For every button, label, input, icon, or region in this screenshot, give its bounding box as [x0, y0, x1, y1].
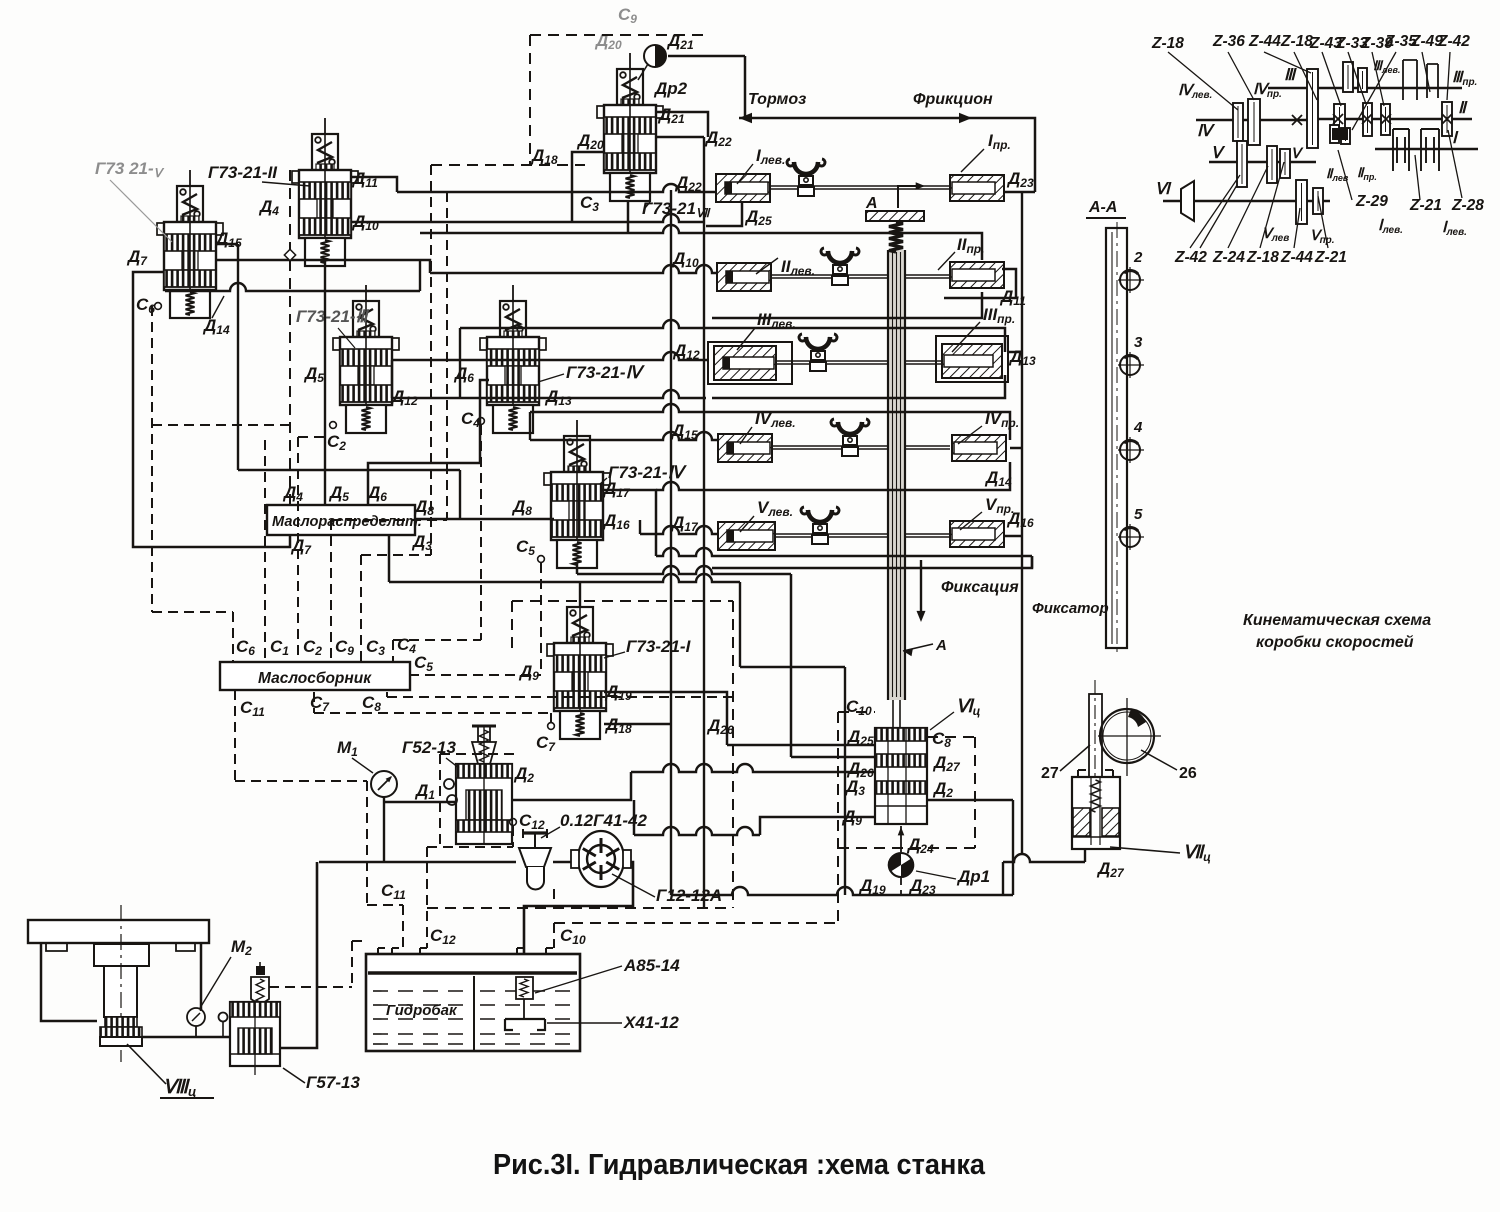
- svg-text:Маслосборник: Маслосборник: [258, 670, 372, 687]
- tank Gidrobak: [366, 954, 580, 1051]
- valve G73-21-IV upper spring box: [493, 405, 533, 433]
- gear small a: [1330, 125, 1339, 143]
- valve G73-21-II spring box: [305, 238, 345, 266]
- fork V: [808, 510, 832, 522]
- wire y534 to rail V: [640, 526, 718, 534]
- VII rod: [1090, 778, 1092, 845]
- kinematic shaft IV: [1196, 119, 1318, 122]
- gear Z-44 on III: [1307, 69, 1318, 148]
- wire y470: [238, 469, 460, 472]
- svg-text:Др1: Др1: [956, 867, 990, 886]
- wire y835 long D9: [633, 800, 636, 835]
- bolt 2 on A-A bar: [1120, 270, 1140, 290]
- valve G73-21-III spring box: [346, 405, 386, 433]
- connection C4: [478, 418, 485, 425]
- cylinder I pr: [950, 175, 1004, 201]
- svg-text:А85-14: А85-14: [623, 956, 680, 975]
- valve G73-21-IV mid neck: [568, 466, 586, 472]
- dashed C12 drop: [512, 826, 514, 847]
- valve G73-21-V neck: [181, 216, 199, 222]
- valve G73-21-V body: [164, 222, 216, 290]
- table axis: [120, 905, 122, 1062]
- wire D5 into box: [324, 260, 326, 505]
- check valve A85-14: [516, 977, 533, 999]
- VII spring: [1091, 780, 1101, 812]
- kinematic mid leaders: [1338, 150, 1352, 200]
- svg-text:Z-42: Z-42: [1174, 249, 1207, 266]
- pump outlet pipe: [524, 862, 633, 977]
- rail II rod: [770, 274, 950, 276]
- wire y273 to rail II: [430, 265, 717, 273]
- table tabs: [46, 943, 67, 951]
- cylinder III pr: [942, 344, 1002, 378]
- bolt 3 on A-A bar: [1120, 355, 1140, 375]
- valve G73-21-II neck: [316, 164, 334, 170]
- wire y582 long: [388, 535, 391, 582]
- svg-text:Фиксация: Фиксация: [941, 579, 1019, 596]
- valve G73-21-V spring box: [170, 290, 210, 318]
- gear Z-21 on VI: [1313, 188, 1323, 214]
- table left wall: [41, 943, 97, 1021]
- dashed C4: [480, 425, 482, 640]
- wire y440 to rail IV: [530, 432, 718, 440]
- dashed bottom y923: [554, 922, 838, 924]
- dashed C6 run: [152, 611, 233, 613]
- VII top collars: [1078, 770, 1086, 777]
- svg-text:А-А: А-А: [1088, 199, 1117, 216]
- wire V pr to bus: [1004, 535, 1022, 538]
- gauge M1: [371, 771, 397, 797]
- piston collar 1: [105, 1017, 137, 1027]
- wire VI cyl D27 right: [927, 799, 1013, 802]
- dashed y425 top-left: [152, 424, 290, 426]
- gear on III left: [1343, 62, 1353, 92]
- valve G73-21-IV mid body: [551, 472, 603, 540]
- gear bracket III right b: [1427, 64, 1438, 98]
- dashed C6 drop: [232, 612, 234, 662]
- dashed C10 tank: [553, 923, 555, 948]
- wire valve V right leg: [237, 244, 239, 470]
- valve G73-21-II pilot: [312, 134, 338, 170]
- shaft lower rod: [892, 700, 894, 728]
- valve G73-21-II body: [299, 170, 351, 238]
- dashed box around VI cyl: [837, 712, 839, 925]
- bus wire vertical x704: [703, 137, 705, 908]
- wire y360 D12 to rail III: [392, 352, 708, 360]
- valve G73-21-VII neck: [621, 99, 639, 105]
- svg-text:Г57-13: Г57-13: [306, 1073, 360, 1092]
- pipe table to G57: [142, 1036, 233, 1039]
- wire y745 to VI cylinder: [727, 744, 875, 747]
- frame around rail V: [712, 556, 1032, 568]
- wire D19 from valve I: [604, 692, 727, 745]
- wire y260 valve V to III: [216, 260, 430, 273]
- piston collar 2: [100, 1027, 142, 1037]
- gear Z-43 on II: [1334, 104, 1345, 139]
- wire filter to pump: [553, 861, 572, 864]
- gear on III mid: [1358, 68, 1367, 92]
- svg-text:Фиксатор: Фиксатор: [1032, 600, 1109, 617]
- wire IV pr to bus: [1010, 447, 1022, 450]
- wire y222 D10: [351, 214, 704, 222]
- svg-text:коробки скоростей: коробки скоростей: [1256, 634, 1414, 651]
- box Maslorapredelit: [267, 505, 415, 535]
- kinematic shaft II: [1312, 118, 1472, 121]
- wire D7 from valve V: [133, 272, 290, 547]
- central shift shaft: [888, 250, 905, 700]
- frame around rail II: [706, 233, 982, 260]
- wire y667 to x845: [740, 666, 845, 669]
- rail III rod: [770, 360, 950, 362]
- wire x1003 lower: [1002, 862, 1004, 895]
- gear bracket I right: [1421, 129, 1439, 171]
- kinematic shaft VI: [1163, 200, 1330, 203]
- arrow Tormoz on line: [739, 113, 752, 123]
- svg-text:Др2: Др2: [653, 79, 688, 98]
- table column upper: [94, 944, 149, 966]
- valve G73-21-IV upper pilot: [500, 301, 526, 337]
- svg-text:Тормоз: Тормоз: [748, 91, 806, 108]
- table right wall: [200, 943, 203, 1011]
- wire y757 VI cyl D26: [791, 756, 875, 759]
- valve G73-21-III body: [340, 337, 392, 405]
- svg-text:Кинематическая схема: Кинематическая схема: [1243, 612, 1431, 629]
- dashed C8 out: [386, 692, 388, 697]
- arrow Fiksacija: [920, 560, 922, 618]
- svg-text:Z-18: Z-18: [1280, 33, 1313, 50]
- dashed box around valve I: [512, 600, 733, 602]
- svg-text:26: 26: [1179, 765, 1197, 782]
- dashed C1: [264, 440, 266, 662]
- wire y772 long D3: [631, 764, 875, 772]
- wire VII right upper: [656, 112, 708, 137]
- cylinder II lev: [717, 263, 771, 291]
- wire y862 bottom: [1003, 854, 1085, 862]
- wire Dr1 up arrow: [900, 826, 902, 852]
- fixator pin 27: [1089, 694, 1102, 778]
- wire y398 frame: [392, 390, 706, 398]
- valve G73-21-IV mid spring box: [557, 540, 597, 568]
- valve G73-21-VII spring box: [610, 173, 650, 201]
- connection C12: [510, 819, 517, 826]
- svg-text:Z-18: Z-18: [1246, 249, 1279, 266]
- connection C5: [538, 556, 545, 563]
- rail V rod: [770, 533, 950, 535]
- cylinder III lev outer: [708, 342, 792, 384]
- rail IV rod: [770, 445, 950, 447]
- frame around rail IV: [706, 412, 1010, 440]
- cylinder VI body: [875, 728, 927, 824]
- svg-text:Фрикцион: Фрикцион: [913, 91, 993, 108]
- filter bowl: [527, 867, 544, 890]
- wire III pr to bus: [1008, 351, 1022, 354]
- svg-text:Z-21: Z-21: [1314, 249, 1347, 266]
- dashed relief to riser: [269, 986, 352, 988]
- gauge M2: [187, 1008, 205, 1026]
- valve G52-13 body: [456, 764, 512, 844]
- filter 0.12G41-42 tap: [534, 845, 536, 852]
- svg-text:Z-29: Z-29: [1355, 193, 1388, 210]
- fork II: [828, 251, 852, 263]
- wire y556: [600, 490, 656, 556]
- cylinder I lev: [716, 174, 770, 202]
- bolt 4 on A-A bar: [1120, 440, 1140, 460]
- throttle Dr1: [889, 853, 913, 877]
- valve G73-21-I body: [554, 643, 606, 711]
- wire y574: [576, 563, 579, 574]
- wire D8 box to valve: [415, 518, 554, 521]
- pulley on VI: [1181, 181, 1194, 221]
- dashed C9 riser: [446, 192, 448, 520]
- kinematic leaders bottom: [1190, 175, 1240, 248]
- wire y233 frame: [420, 225, 706, 233]
- wire y490 frame: [656, 482, 712, 490]
- svg-text:Z-44: Z-44: [1280, 249, 1313, 266]
- wire y895 bottom: [671, 887, 1013, 895]
- svg-text:Маслораспределит.: Маслораспределит.: [272, 514, 422, 530]
- wire Dr1 down dashed: [900, 877, 902, 895]
- pump G12-12A: [578, 831, 624, 887]
- gear Z-18 on V: [1280, 149, 1290, 178]
- clutch crosses: [1333, 114, 1343, 124]
- svg-text:Г73-21-Ⅳ: Г73-21-Ⅳ: [566, 363, 646, 382]
- wire y291 left: [165, 283, 420, 291]
- gear Z-44 on VI: [1296, 180, 1307, 224]
- svg-text:Г73-21-II: Г73-21-II: [208, 163, 278, 182]
- svg-text:А: А: [865, 195, 878, 212]
- gear Z-42 on II: [1442, 102, 1452, 136]
- filter funnel: [519, 848, 551, 867]
- valve G73-21-VII body: [604, 105, 656, 173]
- G57 small circles: [219, 1013, 228, 1022]
- outer frame top wire: [744, 56, 747, 118]
- valve G73-21-IV upper neck: [504, 331, 522, 337]
- wire gauge to frame: [668, 55, 745, 58]
- valve G73-21-VII pilot: [617, 69, 643, 105]
- wire VII right lower: [656, 136, 704, 139]
- gear small b: [1341, 128, 1350, 144]
- valve G73-21-IV upper body: [487, 337, 539, 405]
- dashed C3 riser: [430, 165, 432, 555]
- right bus wire: [1021, 192, 1023, 855]
- piston cap: [100, 1037, 142, 1046]
- valve G73-21-IV mid pilot: [564, 436, 590, 472]
- gear Z-18 on IV: [1233, 103, 1243, 141]
- cylinder V pr: [950, 521, 1004, 547]
- strainer X41-12: [523, 999, 525, 1019]
- svg-text:2: 2: [1133, 249, 1143, 266]
- shaft platform: [866, 211, 924, 221]
- kinematic leaders top: [1168, 52, 1238, 110]
- connection C2: [330, 422, 337, 429]
- pipe VII cyl: [1084, 849, 1086, 862]
- valve G73-21-I spring box: [560, 711, 600, 739]
- svg-text:Гидробак: Гидробак: [386, 1002, 458, 1019]
- wire D4 dashed: [289, 170, 291, 505]
- dashed C7 out: [313, 692, 315, 713]
- valve G73-21-I pilot: [567, 607, 593, 643]
- valve G73-21-I neck: [571, 637, 589, 643]
- platform bent arrow: [898, 186, 922, 208]
- svg-text:Рис.3I. Гидравлическая :хема: Рис.3I. Гидравлическая :хема станка: [493, 1149, 986, 1181]
- dashed box G52: [440, 753, 514, 755]
- wire M1 to valve G52: [384, 801, 456, 804]
- dashed C11 drop: [234, 690, 236, 781]
- tank divider: [473, 976, 475, 1050]
- valve G73-21-III pilot: [353, 301, 379, 337]
- bolt 5 on A-A bar: [1120, 527, 1140, 547]
- cylinder II pr: [950, 262, 1004, 288]
- gear Z-33 on II: [1363, 103, 1372, 136]
- svg-text:Z-21: Z-21: [1409, 197, 1442, 214]
- suction line main: [319, 861, 516, 864]
- svg-text:Г73-21-Ⅲ: Г73-21-Ⅲ: [296, 307, 370, 326]
- wire I pr to bus: [1005, 191, 1035, 194]
- svg-text:Z-36: Z-36: [1212, 33, 1245, 50]
- kinematic shaft III: [1268, 87, 1462, 90]
- cylinder IV lev: [718, 434, 772, 462]
- fork I: [794, 162, 818, 174]
- table column: [104, 966, 137, 1017]
- tank top collars: [378, 948, 385, 954]
- wire valve I top feed: [579, 582, 581, 606]
- wire x791 down to VI cyl: [790, 574, 793, 757]
- disc 26: [1100, 709, 1154, 763]
- kinematic shaft I: [1375, 148, 1478, 151]
- svg-text:Z-42: Z-42: [1437, 33, 1470, 50]
- cylinder V lev: [718, 522, 775, 550]
- wire M1 stem: [383, 797, 385, 862]
- svg-text:Г73-21-I: Г73-21-I: [626, 637, 692, 656]
- fork III: [806, 337, 830, 349]
- dashed C2: [297, 437, 299, 662]
- wire D2 from G52-13: [508, 772, 631, 800]
- cylinder III lev: [714, 346, 776, 380]
- relief valve over G57: [251, 977, 269, 1005]
- svg-text:Z-24: Z-24: [1212, 249, 1245, 266]
- section bar A-A: [1106, 228, 1127, 648]
- dashed C9: [330, 520, 332, 662]
- gear bracket I left: [1393, 129, 1409, 171]
- pipe G57 out: [280, 862, 317, 1048]
- wire y412 frame: [530, 404, 706, 412]
- svg-text:Z-18: Z-18: [1151, 35, 1184, 52]
- fork IV: [838, 422, 862, 434]
- dashed C6 riser: [151, 306, 153, 612]
- gear Z-36 on IV: [1248, 99, 1260, 145]
- valve G73-21-III neck: [357, 331, 375, 337]
- tank oil level: [368, 971, 577, 974]
- wire VII bottom stub: [627, 201, 630, 233]
- connection C7: [548, 723, 555, 730]
- svg-text:3: 3: [1134, 334, 1143, 351]
- svg-text:5: 5: [1134, 506, 1143, 523]
- gauge Dr2 circle: [644, 45, 666, 67]
- cylinder III pr outer: [936, 336, 1008, 382]
- wire y192 valve II to rail I: [351, 177, 397, 192]
- gear bracket III right a: [1403, 60, 1417, 100]
- svg-text:Ⅵ: Ⅵ: [1155, 181, 1172, 198]
- dashed pilot box VII: [530, 34, 710, 36]
- connection C6: [155, 303, 162, 310]
- tank liquid dashes: [373, 990, 468, 992]
- wire y328 frame: [460, 320, 706, 328]
- VII hatch left: [1073, 808, 1090, 836]
- svg-text:0.12Г41-42: 0.12Г41-42: [560, 811, 648, 830]
- VII hatch right: [1102, 808, 1119, 836]
- svg-text:Z-28: Z-28: [1451, 197, 1484, 214]
- svg-text:Z-44: Z-44: [1248, 33, 1281, 50]
- pointer A lower: [903, 644, 933, 651]
- gear Z-42 slider IV-V: [1237, 141, 1247, 187]
- arrow Friktsion on line: [959, 113, 972, 123]
- dashed C5 out: [409, 674, 541, 676]
- gear Z-24 on V: [1267, 146, 1277, 183]
- valve G73-21-V pilot: [177, 186, 203, 222]
- table VIII plate: [28, 920, 209, 943]
- wire II pr return: [944, 269, 1016, 298]
- svg-text:Г12-12А: Г12-12А: [656, 886, 722, 905]
- shaft spring top: [889, 222, 903, 252]
- svg-text:А: А: [935, 637, 947, 654]
- frame around rail III: [706, 328, 1005, 352]
- gear Z-39 on II: [1381, 104, 1390, 135]
- wire C3 from valve VII: [572, 152, 605, 222]
- wire D25: [706, 203, 742, 226]
- bus wire vertical x671: [670, 190, 672, 895]
- G52-13 drain circles: [444, 779, 454, 789]
- svg-text:Х41-12: Х41-12: [623, 1013, 679, 1032]
- rail I rod: [770, 185, 950, 187]
- pump G57-13 body: [230, 1002, 280, 1066]
- kinematic shaft V: [1209, 161, 1316, 164]
- valve G52-13 relief top: [472, 725, 496, 728]
- svg-text:4: 4: [1133, 419, 1143, 436]
- wire D18 from valve I: [604, 723, 671, 725]
- cylinder VII body: [1072, 777, 1120, 849]
- svg-text:Г73-21-Ⅳ: Г73-21-Ⅳ: [608, 463, 688, 482]
- cylinder IV pr: [952, 435, 1006, 461]
- box Maslosbornik: [220, 662, 410, 690]
- wire D6 into box: [368, 380, 489, 505]
- svg-text:27: 27: [1041, 765, 1059, 782]
- dashed C3: [360, 555, 362, 662]
